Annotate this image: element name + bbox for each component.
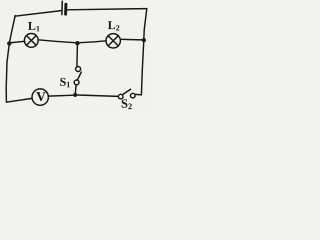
- label S1: [60, 78, 66, 86]
- label L1: [28, 22, 35, 30]
- wire L2 to right border: [121, 38, 142, 41]
- node at right border (L2 branch): [142, 38, 146, 42]
- lamp L1 circle: [24, 34, 38, 48]
- switch S1 lower contact: [74, 80, 79, 85]
- wire middle (L1 to L2): [38, 40, 106, 43]
- wire bottom (node to voltmeter): [49, 94, 74, 97]
- wire L1 branch from left border: [9, 41, 24, 43]
- wire left border: [6, 16, 15, 102]
- wire bottom middle (S2 to S1 node): [77, 95, 118, 96]
- switch S2 left contact: [118, 94, 123, 99]
- wire right border: [141, 9, 146, 95]
- wire top-left segment: [15, 11, 61, 17]
- switch S1 lever: [77, 72, 81, 80]
- node at bottom wire (S1 branch bottom): [73, 93, 77, 97]
- label V (voltmeter): [36, 92, 45, 101]
- switch S2 lever: [123, 89, 131, 94]
- switch S2 right contact: [131, 93, 136, 98]
- node at left border (L1 branch): [7, 41, 11, 45]
- lamp L2 cross: [108, 36, 118, 46]
- node at middle wire (S1 branch top): [75, 41, 79, 45]
- label L2: [108, 21, 115, 29]
- battery short thick plate: [64, 4, 67, 14]
- wire bottom-right corner to S2: [135, 93, 141, 95]
- switch S1 upper contact: [76, 67, 81, 72]
- lamp L2 circle: [106, 34, 120, 48]
- scan noise overlay: [0, 0, 151, 112]
- lamp L1 cross: [26, 36, 36, 46]
- battery long plate: [61, 1, 63, 14]
- wire top-right segment: [67, 9, 147, 10]
- voltmeter V circle: [32, 89, 48, 105]
- wire S1 branch vertical lower: [74, 85, 77, 94]
- wire bottom-left segment: [6, 98, 32, 102]
- wire S1 branch vertical upper: [76, 45, 79, 67]
- label S2: [122, 99, 128, 107]
